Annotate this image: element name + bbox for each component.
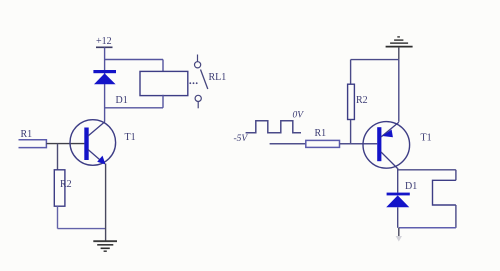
wire: relay bottom stub [162, 95, 164, 108]
wire: load right lower stub [455, 205, 457, 228]
wire: R2 branch vertical upper [57, 144, 59, 170]
wire: collector down to diode [397, 168, 399, 193]
svg-text:T1: T1 [125, 132, 136, 143]
wire: bottom horizontal [399, 227, 456, 229]
svg-text:RL1: RL1 [209, 72, 227, 83]
svg-text:T1: T1 [421, 133, 432, 144]
wire: emitter vertical (right) [398, 60, 400, 122]
wire: emitter vertical [105, 164, 107, 241]
wire: bottom stub [398, 228, 400, 236]
wire: relay top horizontal [105, 59, 163, 61]
resistor R1 (right) [306, 140, 340, 147]
wire: relay top stub [162, 60, 164, 72]
relay coil box RL1 [140, 71, 188, 95]
relay linkage dots [189, 82, 197, 84]
diode D1 (left) [93, 70, 116, 84]
relay contacts RL1: top contact circle [195, 55, 201, 68]
ground (top right, inverted) [386, 37, 413, 47]
svg-text:R2: R2 [60, 179, 72, 190]
wire: diode bottom to rail [397, 207, 399, 228]
load box (open right) [433, 180, 456, 205]
wire: relay bottom horizontal [105, 107, 163, 109]
relay switch blade [201, 70, 208, 90]
svg-text:R1: R1 [315, 128, 327, 139]
+12 power bar [96, 46, 113, 48]
faint arrow below stub [396, 236, 402, 242]
wire: R2 top vertical [350, 60, 352, 85]
resistor R2 (left) [54, 170, 65, 206]
svg-text:R1: R1 [21, 129, 33, 140]
resistor R2 (right) [348, 84, 355, 119]
wire: load right upper stub [455, 170, 457, 181]
wire: bottom horizontal to emitter [58, 228, 106, 230]
transistor T1 (left) [70, 120, 116, 166]
wire: R2 bottom vertical [350, 120, 352, 144]
svg-text:0V: 0V [293, 111, 305, 121]
svg-text:D1: D1 [405, 181, 417, 192]
input waveform [246, 121, 301, 133]
wire: top horizontal [351, 59, 399, 61]
svg-text:D1: D1 [116, 95, 128, 106]
wire: input to R1 [270, 143, 306, 145]
wire: main vertical +12 to collector [104, 47, 106, 121]
wire: R1 to base [340, 143, 378, 145]
wire: R2 bottom vertical [57, 206, 59, 228]
svg-text:+12: +12 [96, 36, 112, 47]
wire: load top horizontal [398, 169, 456, 171]
svg-text:R2: R2 [356, 95, 368, 106]
wire: base wire R1 to T1 [46, 143, 84, 145]
ground (left) [93, 241, 117, 251]
wire: ground stem [398, 48, 400, 60]
resistor R1 (left, open-left box) [19, 140, 47, 148]
diode D1 (right) [386, 193, 410, 208]
svg-text:-5V: -5V [234, 134, 249, 144]
transistor T1 (right, PNP) [363, 122, 410, 169]
relay contacts RL1: bottom contact circle [195, 95, 201, 108]
